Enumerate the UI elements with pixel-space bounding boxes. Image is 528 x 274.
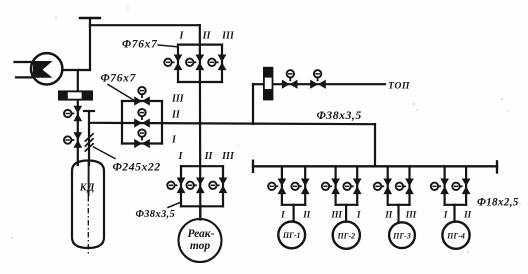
actuator T2 [314,70,321,81]
svg-text:II: II [171,110,181,121]
actuator B-II [138,109,145,120]
svg-text:I: I [356,209,361,219]
valve V2 [73,132,82,148]
valve PG2-b [353,179,362,195]
svg-text:ПГ-4: ПГ-4 [446,231,465,240]
TOP wire [273,83,385,85]
svg-text:III: III [171,94,185,105]
header left cap [252,161,254,172]
PG2 stem wire [345,205,347,222]
actuator B-III [138,87,145,98]
label III (manifold C) [221,151,235,162]
reactor stem wire [199,206,201,219]
label II (PG4) [463,209,472,219]
actuator T1 [287,70,294,81]
svg-text:I: I [179,31,185,42]
actuator PG4-b [452,183,462,190]
pump outlet wire [62,69,90,71]
actuator A-III [208,59,218,66]
svg-text:II: II [384,209,393,219]
svg-text:Φ76х7: Φ76х7 [101,73,137,85]
actuator PG4-a [431,183,441,190]
actuator C-II [187,182,197,189]
label PG-4 [446,231,465,240]
label F76x7 lower [101,73,137,101]
label KD [79,182,96,193]
actuator PG2-b [343,183,353,190]
steam generator PG-2 [333,222,360,249]
TOP branch wire [253,83,264,85]
svg-text:II: II [202,31,212,42]
svg-text:Φ18х2,5: Φ18х2,5 [477,197,519,209]
svg-text:I: I [171,135,177,146]
svg-text:ПГ-3: ПГ-3 [392,231,411,240]
steam generator PG-4 [442,222,469,249]
valve PG1-a [278,179,287,195]
label PG-3 [392,231,411,240]
valve PG1-b [301,179,310,195]
valve T2 [310,80,326,89]
label III (manifold A) [221,31,235,42]
PG2 drop wires [336,166,358,205]
label PG-2 [336,231,355,240]
PG3 collector wire [388,204,410,206]
PG1 stem wire [293,205,295,222]
label I (manifold A) [179,31,185,42]
valve C-II [196,178,205,194]
valve V1 [73,106,82,122]
riser to TOP line [252,84,254,124]
central vertical wire [199,25,202,217]
drop wire 2 [77,101,79,165]
reactor vessel [179,219,222,262]
feed wire to header [374,124,376,166]
header right cap [496,161,498,172]
svg-text:ПГ-2: ПГ-2 [336,231,355,240]
manifold A box [178,45,222,82]
PG header pipe [253,165,497,167]
actuator V1 [64,110,74,117]
svg-text:Φ38х3,5: Φ38х3,5 [136,209,176,220]
actuator PG1-b [291,183,301,190]
svg-text:II: II [204,151,214,162]
svg-text:Φ76х7: Φ76х7 [122,39,158,51]
pipe break squiggle [85,134,93,151]
gate valve (block) [58,90,93,100]
svg-text:Φ245х22: Φ245х22 [113,160,161,174]
label I (PG1) [280,209,285,219]
label F38x3,5 lower [136,203,181,220]
PG4 collector wire [445,204,467,206]
svg-text:I: I [443,209,448,219]
label II (manifold A) [202,31,212,42]
steam generator PG-3 [389,222,415,248]
vessel KD [72,161,104,249]
manifold B box [122,101,162,144]
label F245x22 [94,147,161,174]
PG2 collector wire [336,204,358,206]
label III (manifold B) [171,94,185,105]
svg-text:Φ38х3,5: Φ38х3,5 [317,108,362,122]
svg-text:ТОП: ТОП [388,81,410,92]
svg-text:I: I [280,209,285,219]
label PG-1 [282,231,301,240]
label Reactor [188,228,215,252]
valve B-II [134,118,150,127]
actuator V2 [64,136,74,143]
PG3 drop wires [388,166,410,205]
capped vent top [80,18,100,26]
label I (manifold C) [178,151,184,162]
pump suction line lower [16,76,34,78]
capped stub [84,111,94,165]
PG1 drop wires [282,166,305,205]
PG4 drop wires [445,166,467,205]
steam generator PG-1 [278,222,305,249]
main pipe F38x3,5 wire [89,123,375,124]
riser wire [89,25,91,70]
label III (PG2) [330,209,342,219]
label I (PG4) [443,209,448,219]
svg-text:II: II [302,209,311,219]
label F18x2,5 [477,197,519,209]
manifold C box [181,166,223,206]
top pipe wire [90,24,200,26]
valve C-III [219,178,228,194]
valve A-I [174,55,183,71]
actuator C-III [209,182,219,189]
svg-text:ПГ-1: ПГ-1 [282,231,301,240]
svg-text:КД: КД [79,182,96,193]
svg-text:III: III [330,209,342,219]
PG4 stem wire [453,205,455,222]
svg-text:III: III [221,31,235,42]
pump suction line upper [15,61,35,63]
actuator A-I [164,59,174,66]
pump P (main circulation pump) [31,53,62,84]
label TOP [388,81,410,92]
actuator PG1-a [268,183,278,190]
label I (manifold B) [171,135,177,146]
label II (PG3) [384,209,393,219]
svg-text:I: I [178,151,184,162]
actuator C-I [167,182,177,189]
PG1 collector wire [282,204,305,206]
valve PG2-a [331,179,340,195]
svg-text:Реак-: Реак- [188,228,215,240]
svg-text:тор: тор [190,240,211,252]
label II (manifold B) [171,110,181,121]
actuator A-II [186,59,196,66]
valve C-I [177,178,186,194]
valve PG4-a [440,179,449,195]
actuator B-I [138,129,145,140]
PG3 stem wire [397,205,399,223]
valve A-II [195,55,204,71]
actuator PG3-b [396,183,406,190]
actuator PG2-a [322,183,332,190]
KD centerline [87,161,89,254]
label I (PG2) [356,209,361,219]
drop wire [77,70,79,90]
valve T1 [282,80,298,89]
valve PG3-b [405,179,414,195]
label III (PG3) [405,209,417,219]
valve PG4-b [462,179,471,195]
actuator PG3-a [374,183,384,190]
flow device (orifice) [263,67,273,101]
svg-text:II: II [463,209,472,219]
label F38x3,5 upper [317,108,362,122]
label F76x7 upper [122,39,177,51]
valve B-III [134,96,150,105]
svg-text:III: III [221,151,235,162]
valve A-III [218,55,227,71]
label II (manifold C) [204,151,214,162]
label II (PG1) [302,209,311,219]
svg-text:III: III [405,209,417,219]
valve PG3-a [383,179,392,195]
valve B-I [134,139,150,148]
